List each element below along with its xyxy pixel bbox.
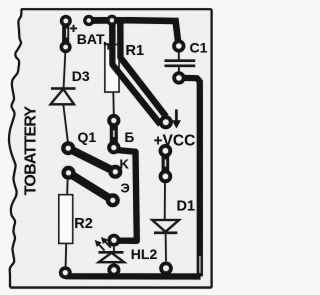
wire R1 to base pad — [112, 92, 115, 115]
border frame top — [21, 8, 212, 10]
LED HL2 arrows — [96, 238, 111, 251]
board interior background — [0, 0, 220, 295]
trace base pad pair bar — [110, 121, 118, 148]
pad C1 bottom — [172, 71, 185, 84]
pad emitter E — [106, 193, 120, 207]
pad C1 top — [172, 39, 185, 52]
pad HL2 top — [107, 234, 120, 247]
border frame left torn edge — [9, 9, 22, 288]
scan notch on BAT pad bar — [66, 29, 67, 38]
wire R2 to bottom pad — [65, 244, 68, 267]
trace base pad to HL2 — [114, 150, 137, 241]
trace VCC pad pair bar — [162, 151, 170, 177]
pad BAT top — [60, 15, 72, 27]
pad HL2 bottom — [107, 264, 120, 277]
wire VCC pads to D1 — [164, 183, 166, 219]
capacitor C1 — [165, 52, 196, 72]
pad base bottom — [107, 141, 120, 154]
diode D3 — [51, 89, 76, 105]
trace C1 down right side — [179, 78, 200, 277]
resistor R1 body — [105, 45, 119, 93]
wire pad to R2 — [66, 180, 68, 195]
wire D1 to pad — [165, 234, 167, 262]
pad jumper left — [83, 15, 94, 26]
pad D3 cathode node — [61, 141, 75, 155]
border frame bottom — [10, 286, 211, 288]
trace top pads bar — [89, 17, 112, 24]
LED HL2 — [99, 247, 125, 265]
label tick after BAT. — [104, 44, 109, 50]
wire BAT pad to D3 — [64, 53, 66, 88]
scan notch on VCC pad bar — [165, 160, 167, 167]
pad collector K — [108, 165, 122, 179]
trace collector dog-bone — [68, 148, 115, 172]
pad BAT bottom — [60, 41, 72, 53]
pad jumper right — [106, 15, 117, 26]
scan notch on base pad bar — [113, 131, 115, 138]
diode D1 — [152, 220, 179, 233]
pad VCC pair top — [159, 144, 173, 158]
scan notch on right trace — [199, 256, 200, 273]
pad VCC node — [159, 115, 173, 129]
trace R1 right diagonal to VCC pad — [120, 22, 166, 117]
trace emitter dog-bone — [69, 173, 113, 201]
battery plus mark — [70, 25, 77, 32]
trace R1 left diagonal to VCC pad — [112, 22, 160, 125]
pad R2 bottom — [59, 266, 72, 279]
trace top horizontal to C1 — [89, 20, 179, 45]
trace bottom ground bar — [66, 273, 201, 279]
pad R2 top node — [62, 166, 76, 180]
pad base top — [107, 114, 120, 127]
VCC arrow — [172, 110, 181, 129]
page background — [0, 0, 220, 295]
border frame right — [211, 9, 213, 287]
resistor R2 body — [59, 195, 73, 244]
trace BAT pads bar — [62, 21, 69, 47]
pad VCC pair bottom — [159, 170, 173, 184]
wire D3 to pad — [63, 105, 68, 144]
pad D1 bottom — [159, 262, 173, 276]
